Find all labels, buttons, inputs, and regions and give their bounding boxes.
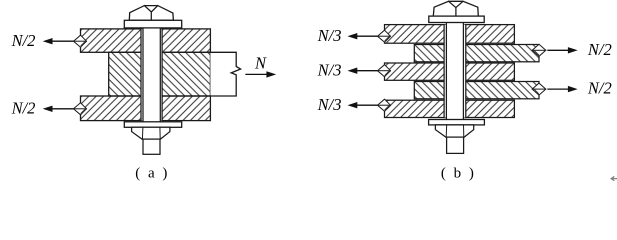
bottom washer (b) [429, 120, 485, 125]
force arrow N/2 bottom-left (a) [43, 106, 74, 112]
label N/3 top (b) [317, 26, 342, 45]
top washer (a) [124, 20, 181, 28]
label N/2 top-right (b) [587, 40, 612, 59]
bottom plate A3 [81, 96, 211, 121]
diamond anchor B3 [378, 65, 391, 77]
bolt threaded stub (a) [143, 139, 160, 154]
nut (a) [132, 127, 170, 139]
force arrow N/3 middle-left (b) [348, 68, 378, 74]
bolt head (b) [433, 1, 478, 16]
force arrow N/2 bottom-right (b) [548, 86, 578, 92]
plate B4 right [414, 82, 539, 99]
force arrow N/3 top-left (b) [348, 33, 378, 39]
diamond anchor B1 [378, 30, 391, 42]
middle plate A2 right extension with break [210, 52, 240, 96]
bottom washer (a) [124, 122, 181, 128]
bolt threaded stub (b) [447, 137, 464, 153]
force arrow N right (a) [246, 71, 276, 77]
gray return arrow bottom-right [611, 177, 616, 181]
label N/2 top-left (a) [11, 31, 36, 50]
nut (b) [435, 125, 473, 137]
caption ( b ) [441, 166, 476, 182]
diamond anchor B5 [378, 99, 391, 111]
svg-text:( a ): ( a ) [135, 166, 169, 182]
force arrow N/3 bottom-left (b) [348, 102, 378, 108]
svg-text:N/3: N/3 [317, 26, 342, 45]
svg-text:N: N [254, 54, 267, 73]
caption ( a ) [135, 166, 169, 182]
label N/2 bottom-left (a) [11, 98, 36, 117]
middle plate A2 hatched part [109, 52, 211, 96]
svg-text:N/3: N/3 [317, 95, 342, 114]
label N/3 bottom (b) [317, 95, 342, 114]
bolt hole clearance (a) [141, 29, 162, 121]
svg-text:N/2: N/2 [587, 40, 612, 59]
bolt head (a) [129, 6, 173, 21]
plate B5 bottom-left [385, 100, 515, 117]
label N right (a) [254, 54, 267, 73]
svg-text:N/2: N/2 [587, 79, 612, 98]
diamond anchor B4 right [532, 83, 546, 95]
top plate A1 [81, 29, 211, 52]
bolt shank (a) [143, 28, 160, 122]
bolt shank (b) [446, 23, 463, 120]
label N/3 middle (b) [317, 60, 342, 79]
diamond anchor B2 right [532, 44, 546, 56]
diamond anchor bottom-left (a) [74, 103, 87, 115]
label N/2 bottom-right (b) [587, 79, 612, 98]
force arrow N/2 top-right (b) [548, 47, 578, 53]
top washer (b) [429, 16, 484, 22]
plate B1 top-left [385, 25, 515, 44]
diamond anchor top-left (a) [74, 35, 87, 47]
plate B3 middle-left [385, 63, 515, 80]
svg-text:( b ): ( b ) [441, 166, 476, 182]
plate B2 right [414, 45, 539, 62]
svg-text:N/2: N/2 [11, 31, 36, 50]
svg-text:N/3: N/3 [317, 60, 342, 79]
svg-text:N/2: N/2 [11, 98, 36, 117]
bolt hole clearance (b) [444, 25, 466, 118]
force arrow N/2 top-left (a) [43, 38, 74, 44]
